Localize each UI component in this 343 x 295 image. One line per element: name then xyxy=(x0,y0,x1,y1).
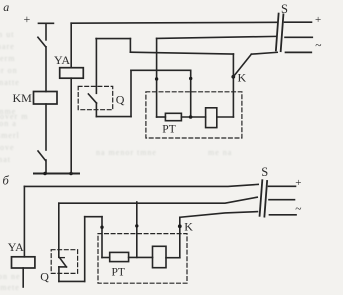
label KM xyxy=(13,91,33,105)
wire: supply line ac (circuit b) xyxy=(270,214,297,216)
wire: contact block right lead xyxy=(217,116,234,118)
wire: K to switch S pole 3 xyxy=(251,52,277,54)
label plus (supply, circuit a) xyxy=(315,14,321,26)
wire: horizontal W1 to PT branch xyxy=(131,69,191,71)
junction node inside PT box xyxy=(189,115,193,119)
thermal relay PT enclosure (dashed, circuit b) xyxy=(98,234,187,284)
wire: K fixed terminal drop xyxy=(232,54,234,117)
wire: K to switch S pole 3 (circuit b) xyxy=(180,212,258,218)
contactor coil KM xyxy=(34,92,58,105)
wire: step down from R2a xyxy=(129,39,131,53)
wire: rail R3 to contact K xyxy=(130,52,233,54)
svg-text:б: б xyxy=(3,174,10,188)
terminal node above PT box (middle) xyxy=(189,77,192,80)
contact (lower, on KM branch) xyxy=(38,151,45,160)
thermal relay PT heater element xyxy=(165,113,181,120)
contact K blade xyxy=(233,54,251,77)
wire: supply line plus (circuit b) xyxy=(269,185,296,187)
wire: rise from PT to contact K (circuit b) xyxy=(179,217,181,257)
wire: contact block right lead (circuit b) xyxy=(166,257,180,259)
wire: rail R2b to switch S xyxy=(157,36,276,38)
electromagnet coil YA (circuit b) xyxy=(12,257,35,268)
switch Q enclosure (dashed, circuit b) xyxy=(51,250,77,274)
label YA xyxy=(54,53,70,67)
wire: drop from rail b2 to PT junction xyxy=(136,202,138,257)
thermal relay PT contact block (circuit b) xyxy=(153,246,167,267)
thermal relay PT enclosure (dashed) xyxy=(146,92,242,138)
wire: rail b3 stub xyxy=(85,216,102,218)
switch Q blade tick xyxy=(59,257,64,259)
wire: rail b2 to switch S xyxy=(59,197,257,203)
wire: heater left lead (circuit b) xyxy=(102,257,110,259)
label plus (supply, circuit b) xyxy=(295,177,301,189)
svg-text:~: ~ xyxy=(295,204,301,216)
switch Q blade (circuit b) xyxy=(60,258,67,267)
wire: supply line middle xyxy=(285,36,312,38)
svg-text:+: + xyxy=(315,14,321,26)
svg-text:KM: KM xyxy=(13,91,33,105)
wire: drop from rail b1 to YA coil xyxy=(23,186,25,256)
svg-text:+: + xyxy=(24,12,31,26)
svg-text:K: K xyxy=(238,71,247,85)
switch S blade 1 (circuit b) xyxy=(260,180,263,216)
wire: top rail R1 xyxy=(71,21,277,24)
terminal node at contact K xyxy=(231,75,235,79)
wire: left rail upper segment xyxy=(45,23,47,40)
wire: drop from R2b through PT heater branch xyxy=(156,38,158,117)
wire: YA coil stub down xyxy=(22,268,24,287)
wire: Q lower terminal down xyxy=(95,103,97,117)
switch S blade 2 (circuit b) xyxy=(264,181,267,217)
label S (switch, circuit b) xyxy=(261,165,268,179)
label b xyxy=(3,174,10,188)
terminal node above PT box b (left) xyxy=(100,226,103,229)
wire: jog right below Q xyxy=(96,116,131,118)
thermal relay PT contact block xyxy=(206,108,217,128)
junction node on bottom bar (KM branch) xyxy=(43,172,47,176)
svg-text:YA: YA xyxy=(8,240,24,254)
wire: rail R2a xyxy=(96,38,130,40)
thermal relay PT heater element (circuit b) xyxy=(110,252,129,261)
wire: supply line ac xyxy=(286,51,312,53)
wire: heater right lead xyxy=(181,116,205,118)
wire: Q blade jog left xyxy=(59,266,67,268)
wire: rail b1 to switch S xyxy=(24,184,258,186)
wire: rise to node level xyxy=(130,70,132,116)
wire: drop from top rail to YA coil xyxy=(70,23,72,67)
terminal node at contact K (circuit b) xyxy=(178,224,182,228)
wire: rise to rail b3 xyxy=(84,217,86,282)
label Q xyxy=(116,93,125,107)
switch Q enclosure (dashed) xyxy=(78,86,113,109)
label K xyxy=(238,71,247,85)
wire: heater to contact block (circuit b) xyxy=(129,256,153,258)
terminal node above PT box (left) xyxy=(155,77,158,80)
switch Q blade xyxy=(88,94,96,103)
wire: supply line plus xyxy=(285,21,312,23)
svg-text:Q: Q xyxy=(40,270,49,284)
wire: KM coil to lower contact xyxy=(45,104,47,150)
wire: lower contact to bottom bar xyxy=(45,160,47,174)
junction node on bottom bar (YA branch) xyxy=(69,172,73,176)
switch S blade 2 xyxy=(281,14,284,51)
terminal node above PT box b (middle) xyxy=(135,224,138,227)
wire: left rail to KM coil xyxy=(45,47,47,92)
svg-text:~: ~ xyxy=(315,40,321,52)
plus terminal label (left) xyxy=(24,12,31,26)
contact (upper, on KM branch) xyxy=(38,37,46,47)
label ac (supply, circuit a) xyxy=(315,40,321,52)
label K (circuit b) xyxy=(184,219,193,233)
label ac (supply, circuit b) xyxy=(295,204,301,216)
svg-text:а: а xyxy=(3,0,9,14)
wire: drop to switch Q xyxy=(95,39,97,94)
wire: drop into PT box left branch xyxy=(101,217,103,258)
label YA (circuit b) xyxy=(8,240,24,254)
svg-text:Q: Q xyxy=(116,93,125,107)
svg-text:YA: YA xyxy=(54,53,70,67)
svg-text:PT: PT xyxy=(112,266,125,278)
label Q (circuit b) xyxy=(40,270,49,284)
svg-text:S: S xyxy=(261,165,268,179)
svg-text:S: S xyxy=(281,2,288,16)
wire: Q lower terminal down xyxy=(58,267,60,282)
svg-text:PT: PT xyxy=(162,123,175,135)
wire: heater left lead xyxy=(157,116,166,118)
label a xyxy=(3,0,9,14)
electromagnet coil YA xyxy=(60,68,84,79)
switch S blade 1 xyxy=(276,14,279,51)
wire: drop to PT relay junction xyxy=(190,70,192,117)
label S (switch, circuit a) xyxy=(281,2,288,16)
bottom return bar xyxy=(34,173,79,175)
wire: supply line middle (circuit b) xyxy=(269,199,295,201)
svg-text:K: K xyxy=(184,219,193,233)
wire: bottom jog right below Q xyxy=(59,280,85,282)
wire: YA coil down to bottom bar xyxy=(70,78,72,173)
wire: drop from rail b2 to switch Q xyxy=(58,203,60,257)
plus terminal bar xyxy=(39,22,54,24)
svg-text:+: + xyxy=(295,177,301,189)
label PT (circuit b) xyxy=(112,266,125,278)
faint page bleed-through text left margin xyxy=(0,30,14,39)
label PT xyxy=(162,123,175,135)
